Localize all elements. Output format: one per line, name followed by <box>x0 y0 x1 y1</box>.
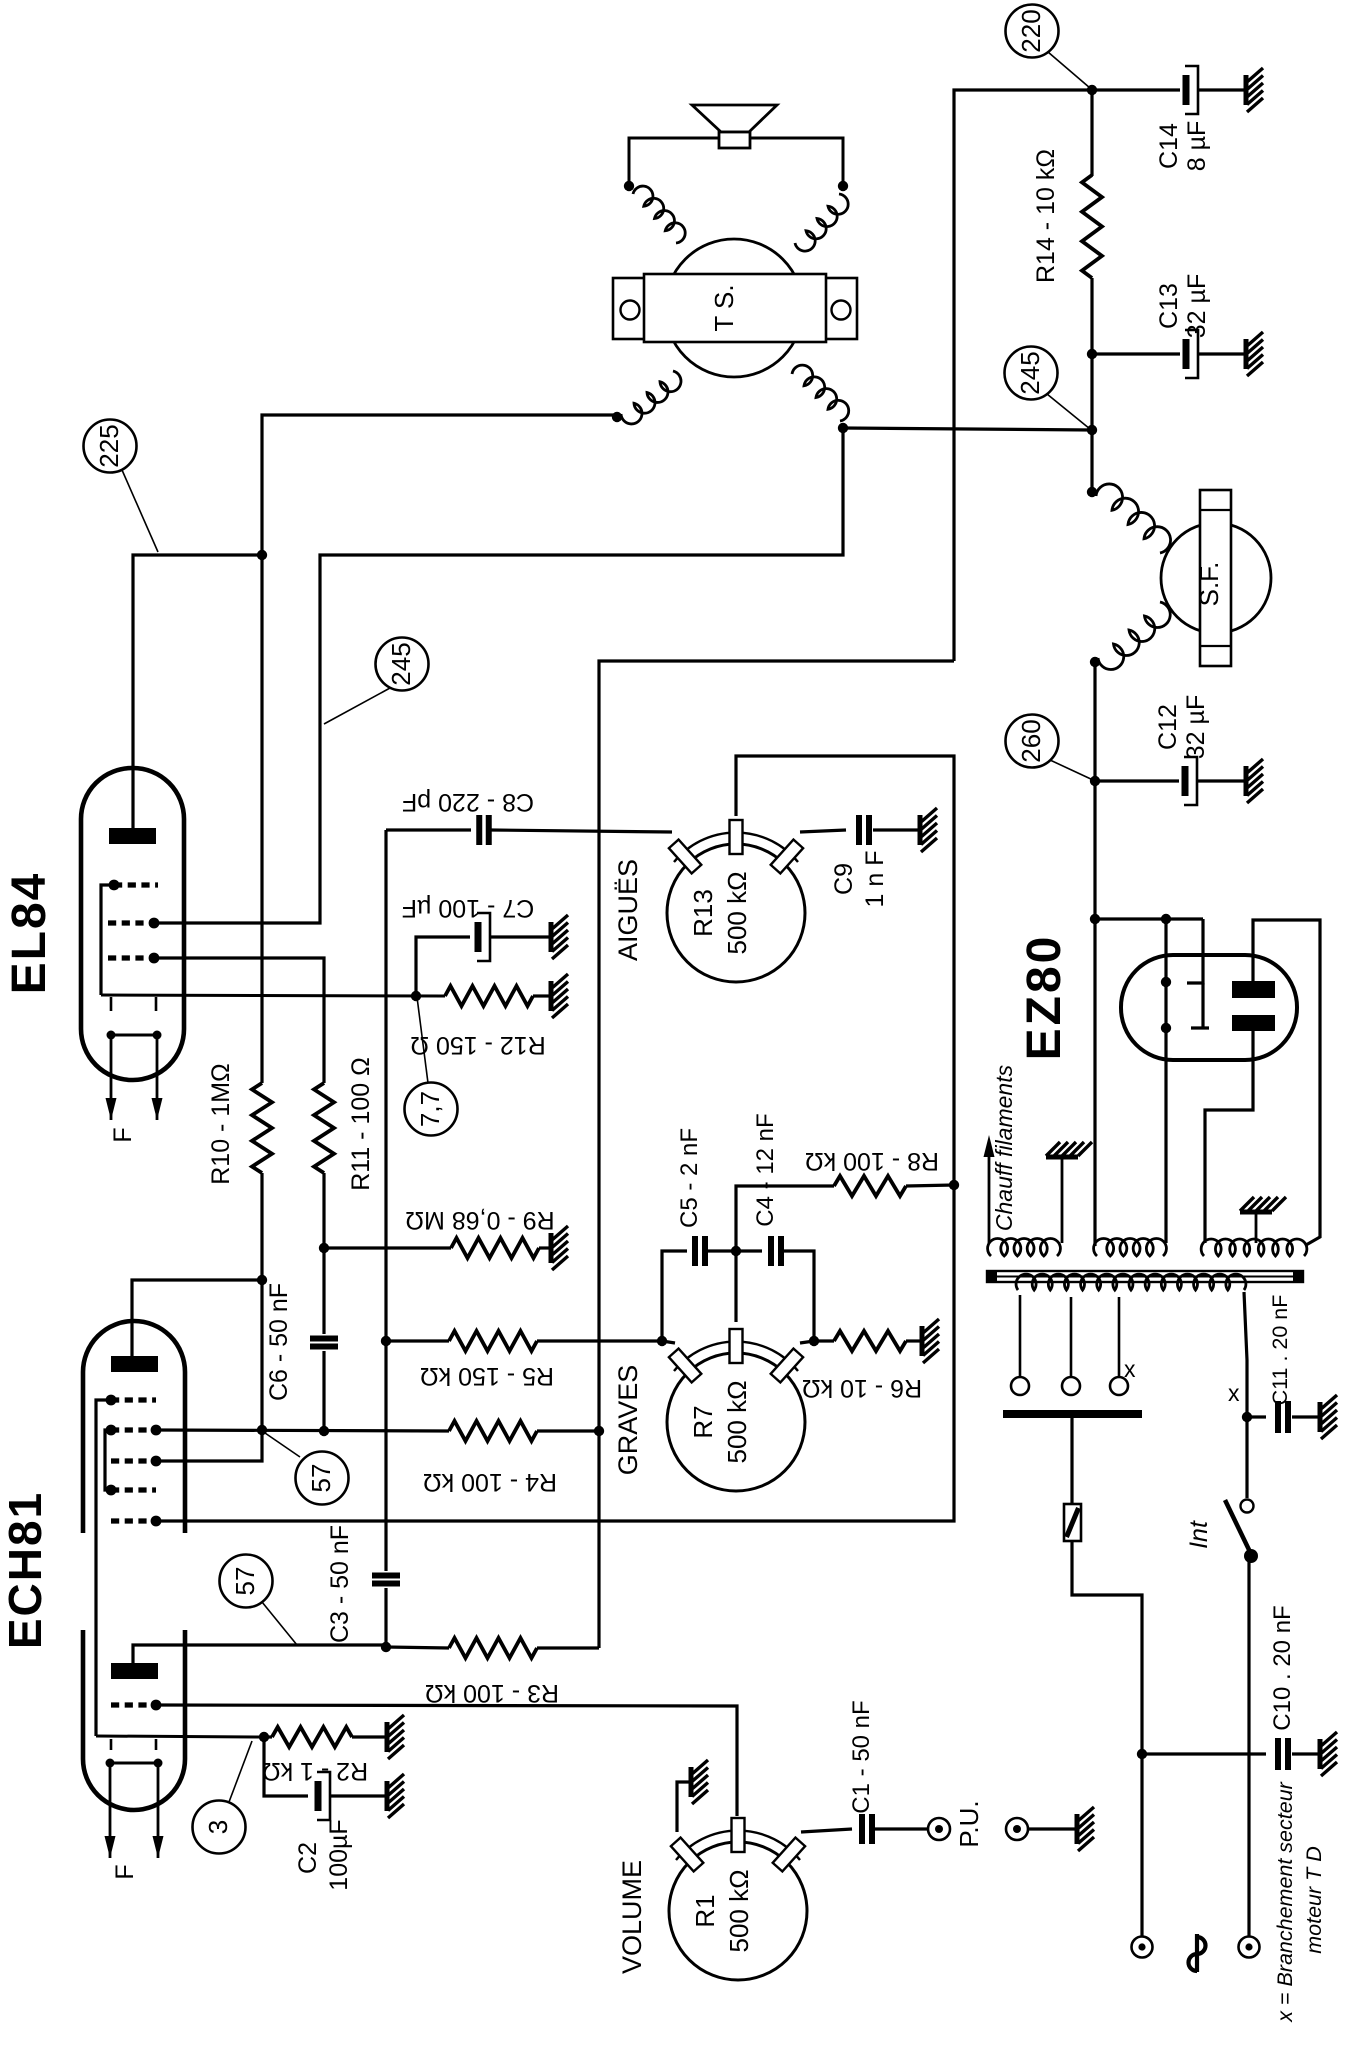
capacitor C9 1nF <box>856 815 862 845</box>
transformer core <box>987 1271 1303 1282</box>
wire 220 feed rail <box>599 661 954 1648</box>
capacitor C14 <box>1183 75 1190 105</box>
node speaker left <box>624 181 634 191</box>
svg-text:C8 - 220 pF: C8 - 220 pF <box>402 788 534 816</box>
svg-text:R12 - 150 Ω: R12 - 150 Ω <box>410 1031 545 1059</box>
tube EL84 grid2 <box>108 920 154 925</box>
transformer T.S. primary coil right <box>792 365 849 421</box>
wire R13 right to C9 <box>800 830 846 832</box>
wire EL84 g1 link <box>101 885 114 995</box>
tube ECH81 envelope lower <box>83 1630 185 1810</box>
wire C13 right <box>1199 352 1245 355</box>
node EZ80 top left <box>1090 914 1100 924</box>
svg-text:P.U.: P.U. <box>954 1800 984 1847</box>
transformer T.S. mounting bracket <box>613 278 646 339</box>
pointer 57 upper <box>265 1433 300 1457</box>
tube ECH81 grid row2 <box>111 1427 156 1432</box>
svg-text:EL84: EL84 <box>3 872 56 995</box>
primary tap 2 terminal <box>1062 1377 1080 1395</box>
svg-text:R9 - 0,68 MΩ: R9 - 0,68 MΩ <box>405 1206 554 1234</box>
node EZ80 cathode b <box>1161 1023 1171 1033</box>
wire EL84 g3 to R11 <box>154 958 324 1083</box>
wire R7 wiper <box>734 1251 737 1322</box>
wire ECH81 g2 row to R4 <box>156 1430 449 1431</box>
wire C14 left <box>1092 88 1180 91</box>
pointer 245 left <box>324 688 390 724</box>
tube ECH81 heater leads F <box>109 1763 112 1838</box>
wire R7 left lug <box>662 1341 675 1343</box>
node R9 junction <box>319 1243 329 1253</box>
node choke bottom <box>1090 657 1100 667</box>
wire C5 to C4 <box>707 1249 762 1252</box>
ground PU <box>1077 1807 1094 1851</box>
pointer 220 <box>1048 52 1090 88</box>
potentiometer R1 VOLUME <box>669 1842 807 1980</box>
wire R10 bottom <box>260 1173 263 1430</box>
tube ECH81 grid row5 <box>111 1518 156 1523</box>
node R7 left junction <box>657 1336 667 1346</box>
mains terminal right <box>1239 1937 1260 1958</box>
svg-text:C1 - 50 nF: C1 - 50 nF <box>848 1700 875 1813</box>
svg-text:260: 260 <box>1016 719 1046 762</box>
node C5 C4 junction <box>731 1246 741 1256</box>
svg-text:245: 245 <box>386 642 416 685</box>
wire C7 right <box>491 935 549 938</box>
svg-text:57: 57 <box>306 1464 336 1493</box>
secondary winding heater chauff <box>988 1238 1061 1256</box>
choke S.F. coil top <box>1096 484 1171 553</box>
pointer 260 <box>1050 760 1093 780</box>
transformer T.S. primary coil left <box>621 371 681 424</box>
tube ECH81 grid row1 <box>111 1397 156 1402</box>
tube EL84 grid1 <box>114 882 158 887</box>
switch Int lever <box>1225 1500 1252 1556</box>
svg-text:ECH81: ECH81 <box>0 1491 51 1649</box>
wire triode grid rail <box>156 1185 954 1521</box>
svg-text:C9: C9 <box>830 863 858 895</box>
wire TS primary left <box>262 415 617 555</box>
capacitor C11 <box>1275 1401 1281 1433</box>
capacitor C4 12nF <box>768 1236 774 1266</box>
node T.S. primary right <box>838 423 848 433</box>
EZ80 cathode line <box>1164 919 1167 1243</box>
wire ECH81 g2-g4 link <box>105 1430 111 1490</box>
wire PU ground <box>1028 1827 1075 1830</box>
ground C7 <box>551 915 568 959</box>
svg-text:R5 - 150 kΩ: R5 - 150 kΩ <box>420 1362 554 1390</box>
svg-text:R8 - 100 kΩ: R8 - 100 kΩ <box>805 1147 939 1175</box>
node 260 junction <box>1090 776 1100 786</box>
node T.S. primary left <box>612 412 622 422</box>
node R8 right junction <box>949 1180 959 1190</box>
wire C12 right <box>1198 779 1245 782</box>
svg-text:R14 - 10 kΩ: R14 - 10 kΩ <box>1032 149 1060 283</box>
transformer T.S. bracket hole right <box>832 301 851 320</box>
svg-text:C6 - 50 nF: C6 - 50 nF <box>265 1283 293 1401</box>
node circle 245 right <box>1005 347 1058 400</box>
capacitor C12 <box>1182 766 1189 796</box>
resistor R14 10k <box>1090 90 1093 176</box>
wire speaker top <box>629 138 719 190</box>
node circle 57 upper <box>296 1452 349 1505</box>
voltage selector bar <box>1003 1410 1142 1418</box>
svg-text:T S.: T S. <box>709 284 739 331</box>
svg-text:225: 225 <box>94 424 124 467</box>
wire C8 chain vertical <box>384 830 387 1341</box>
wire C10 to mains terminal <box>1140 1754 1143 1936</box>
ground C10 <box>1320 1732 1337 1776</box>
resistor R9 0.68M <box>451 1238 539 1258</box>
svg-text:R10 - 1MΩ: R10 - 1MΩ <box>207 1063 235 1185</box>
capacitor C13 <box>1183 339 1190 369</box>
choke S.F. coil bottom <box>1098 602 1170 670</box>
wire C12 left <box>1095 779 1179 782</box>
svg-text:C4 - 12 nF: C4 - 12 nF <box>752 1113 779 1226</box>
tube ECH81 grid row4 <box>111 1487 156 1492</box>
tube EL84 envelope <box>81 768 184 1080</box>
wire 220 rail top <box>954 90 1092 661</box>
svg-text:x = Branchement secteur: x = Branchement secteur <box>1273 1781 1297 2022</box>
wire 260 down to EZ80 net <box>1093 781 1096 919</box>
svg-text:C5 - 2 nF: C5 - 2 nF <box>676 1128 703 1228</box>
wire C6 bottom <box>322 1351 325 1431</box>
svg-text:C7 - 100 µF: C7 - 100 µF <box>402 894 535 922</box>
pointer 245 right <box>1047 394 1090 429</box>
wire R9 left <box>324 1246 451 1249</box>
svg-text:R6 - 10 kΩ: R6 - 10 kΩ <box>802 1374 922 1402</box>
ground R12 <box>551 974 568 1018</box>
capacitor C7 100uF <box>475 922 482 952</box>
svg-text:AIGUËS: AIGUËS <box>613 859 643 961</box>
svg-text:Chauff filaments: Chauff filaments <box>991 1064 1017 1231</box>
resistor R4 100k <box>449 1421 537 1441</box>
svg-text:R7: R7 <box>688 1405 718 1438</box>
primary tap 1 wire <box>1019 1295 1022 1377</box>
wire C11 right <box>1292 1415 1318 1418</box>
node R3 left junction <box>381 1642 391 1652</box>
pointer 7,7 <box>417 997 428 1083</box>
svg-text:x: x <box>1124 1356 1136 1382</box>
wire triode grid to volume <box>156 1705 737 1816</box>
svg-text:100µF: 100µF <box>325 1819 353 1890</box>
wire C8 left <box>386 828 471 831</box>
EZ80 filament <box>1187 919 1203 983</box>
capacitor C5 2nF <box>692 1236 698 1266</box>
svg-text:C11 . 20 nF: C11 . 20 nF <box>1268 1295 1292 1406</box>
ground R2 <box>387 1715 404 1759</box>
wire C3 chain vertical <box>384 1341 387 1571</box>
svg-text:C13: C13 <box>1155 283 1183 329</box>
tube ECH81 cathode stubs <box>110 1739 113 1750</box>
wire anode junction down <box>260 555 263 1083</box>
wire R2 to C2 <box>264 1737 308 1796</box>
secondary winding HT <box>1201 1239 1307 1256</box>
svg-text:F: F <box>109 1127 137 1142</box>
node circle 3 <box>193 1801 246 1854</box>
wire EZ80 anode2 to HT left <box>1205 1031 1253 1243</box>
wire R8 left <box>736 1186 834 1251</box>
ground R1 <box>691 1760 708 1804</box>
wire choke to 260 <box>1093 662 1096 781</box>
pointer 225 <box>122 470 158 552</box>
svg-text:1 n F: 1 n F <box>861 851 889 908</box>
secondary winding EZ80 heater <box>1094 1238 1167 1256</box>
wire fuse down <box>1072 1541 1142 1754</box>
svg-text:C3 - 50 nF: C3 - 50 nF <box>326 1525 354 1643</box>
mains terminal left <box>1132 1937 1153 1958</box>
pointer 57 lower <box>262 1602 297 1645</box>
ground C11 <box>1320 1395 1337 1439</box>
wire C9 right <box>873 828 918 831</box>
node cathode junction <box>411 991 421 1001</box>
svg-text:32 µF: 32 µF <box>1183 274 1211 338</box>
terminal PU ground <box>1006 1818 1028 1840</box>
transformer T.S. bracket hole left <box>621 301 640 320</box>
wire R1 left lug to ground <box>677 1782 689 1832</box>
ground chauff winding <box>1061 1158 1064 1243</box>
tube EZ80 envelope <box>1121 955 1297 1060</box>
capacitor C6 50nF <box>310 1336 338 1342</box>
node speaker right <box>838 181 848 191</box>
tube EL84 heater <box>111 1034 157 1037</box>
svg-text:220: 220 <box>1016 9 1046 52</box>
node R4 left junction <box>257 1425 267 1435</box>
svg-text:500 kΩ: 500 kΩ <box>722 871 752 954</box>
wire C10 right <box>1292 1752 1318 1755</box>
ground C12 <box>1246 759 1263 803</box>
svg-text:R3 - 100 kΩ: R3 - 100 kΩ <box>425 1679 559 1707</box>
resistor R3 100k <box>386 1647 449 1648</box>
capacitor C1 50nF <box>859 1814 865 1844</box>
svg-text:GRAVES: GRAVES <box>613 1365 643 1476</box>
ground C14 <box>1246 68 1263 112</box>
wire C7 link <box>416 937 470 996</box>
node EZ80 cathode top <box>1161 914 1171 924</box>
tube ECH81 heater <box>110 1762 158 1765</box>
wire 245 down to choke <box>1090 430 1093 492</box>
primary tap 2 wire <box>1070 1297 1073 1377</box>
wire 260 net down to winding <box>1093 919 1096 1246</box>
svg-text:57: 57 <box>230 1567 260 1596</box>
ground C9 <box>920 808 937 852</box>
tube ECH81 triode grid <box>111 1702 156 1707</box>
wire C11 to switch <box>1245 1417 1248 1498</box>
node 245 junction <box>1087 425 1097 435</box>
node circle 57 lower <box>220 1555 273 1608</box>
capacitor C8 220pF <box>476 815 482 845</box>
transformer T.S. secondary coil right <box>795 194 848 251</box>
ground R6 <box>922 1319 939 1363</box>
svg-text:8 µF: 8 µF <box>1183 121 1211 172</box>
wire to ECH81 anode <box>132 1280 262 1356</box>
node C13 junction <box>1087 349 1097 359</box>
wire EZ80 anode1 to HT right <box>1253 920 1320 1245</box>
node R5 left junction <box>381 1336 391 1346</box>
EZ80 anode plate 2 <box>1232 1015 1275 1031</box>
pointer 3 <box>229 1741 252 1802</box>
svg-text:32 µF: 32 µF <box>1182 695 1210 759</box>
svg-text:S.F.: S.F. <box>1194 562 1224 607</box>
tube EL84 anode <box>109 828 156 844</box>
EZ80 anode plate 1 <box>1232 981 1275 998</box>
speaker HP <box>692 105 777 132</box>
node EL84 anode junction <box>257 550 267 560</box>
node circle 7,7 <box>405 1083 458 1136</box>
tube EL84 grid3 <box>108 955 154 960</box>
capacitor C3 50nF <box>372 1573 400 1579</box>
choke S.F. circle <box>1161 523 1271 633</box>
wire C2 right <box>331 1794 385 1797</box>
node cathode R2 junction <box>259 1732 269 1742</box>
node circle 220 <box>1006 5 1059 58</box>
wire C1 to PU <box>874 1827 928 1830</box>
potentiometer R7 GRAVES <box>667 1353 805 1491</box>
svg-text:R11 - 100 Ω: R11 - 100 Ω <box>347 1057 375 1191</box>
primary winding <box>1016 1274 1246 1290</box>
svg-text:F: F <box>111 1864 139 1879</box>
svg-text:245: 245 <box>1015 351 1045 394</box>
svg-text:500 kΩ: 500 kΩ <box>722 1380 752 1463</box>
transformer T.S. secondary coil left <box>633 186 685 243</box>
wire ECH81 g3 link <box>156 1431 262 1461</box>
tube EL84 cathode <box>101 995 445 996</box>
switch Int contact <box>1241 1500 1254 1513</box>
label mains sine <box>1195 1934 1199 1972</box>
wire EZ80 top <box>1095 917 1203 920</box>
tube EL84 heater leads F <box>110 1035 113 1100</box>
wire C13 left <box>1092 352 1180 355</box>
wire R14 to 245 node <box>1090 354 1093 431</box>
svg-text:EZ80: EZ80 <box>1018 934 1071 1061</box>
node R4 right junction <box>594 1426 604 1436</box>
transformer T.S. core circle <box>665 239 803 377</box>
fuse <box>1064 1504 1081 1541</box>
node C10 junction <box>1137 1749 1147 1759</box>
svg-text:C10 . 20 nF: C10 . 20 nF <box>1269 1605 1296 1730</box>
svg-text:R1: R1 <box>690 1894 720 1927</box>
resistor R2 1k <box>264 1735 272 1738</box>
wire C14 right <box>1199 88 1245 91</box>
primary tap 3 terminal <box>1110 1377 1128 1395</box>
wire R1 right lug to C1 <box>801 1829 852 1832</box>
wire ECH81 cathode row <box>96 1736 264 1737</box>
wire R7 right lug <box>800 1341 814 1343</box>
terminal PU hot <box>928 1818 950 1840</box>
svg-text:moteur T D: moteur T D <box>1302 1846 1326 1954</box>
node circle 260 <box>1006 715 1059 768</box>
svg-text:C12: C12 <box>1154 704 1182 750</box>
node choke top <box>1087 487 1097 497</box>
wire EL84 anode riser <box>133 555 262 828</box>
wire ECH81 anode2 link <box>133 1645 386 1663</box>
tube ECH81 anode2 <box>111 1663 158 1679</box>
svg-text:x: x <box>1228 1380 1240 1406</box>
wire C3 bottom <box>384 1588 387 1647</box>
svg-text:R13: R13 <box>688 889 718 937</box>
resistor R11 100 <box>314 1083 334 1173</box>
ground C2 <box>387 1774 404 1818</box>
node C11 junction <box>1242 1412 1252 1422</box>
wire selector to fuse <box>1070 1418 1073 1504</box>
node circle 245 left <box>376 638 429 691</box>
wire primary right down <box>1244 1292 1247 1417</box>
svg-text:3: 3 <box>203 1820 233 1834</box>
node C6 R4 junction <box>319 1426 329 1436</box>
svg-text:C2: C2 <box>294 1842 322 1874</box>
wire ECH81 g1 long link <box>96 1400 111 1736</box>
primary tap 1 terminal <box>1011 1377 1029 1395</box>
resistor R12 150 <box>445 986 533 1006</box>
resistor R5 150k <box>386 1339 449 1342</box>
choke S.F. bar <box>1200 490 1231 666</box>
svg-text:R4 - 100 kΩ: R4 - 100 kΩ <box>423 1468 557 1496</box>
node 220 junction <box>1087 85 1097 95</box>
ground C13 <box>1246 332 1263 376</box>
svg-text:Int: Int <box>1185 1520 1213 1549</box>
primary tap 3 wire <box>1118 1297 1121 1377</box>
switch Int pivot <box>1244 1549 1258 1563</box>
node R10 ECH81 junction <box>257 1275 267 1285</box>
wire R11 bottom <box>322 1173 325 1334</box>
resistor R8 100k <box>834 1176 906 1196</box>
svg-text:7,7: 7,7 <box>415 1091 445 1127</box>
wire EL84 screen rail <box>154 428 843 923</box>
wire C11 left <box>1247 1415 1266 1418</box>
svg-text:500 kΩ: 500 kΩ <box>724 1869 754 1952</box>
node R6 junction <box>809 1336 819 1346</box>
capacitor C10 <box>1275 1738 1281 1770</box>
capacitor C2 100uF <box>315 1781 322 1811</box>
tube ECH81 grid row3 <box>111 1458 156 1463</box>
wire R13 wiper rail <box>736 756 954 1185</box>
resistor R6 10k <box>814 1339 834 1342</box>
svg-text:C14: C14 <box>1155 123 1183 169</box>
svg-text:R2 - 1 kΩ: R2 - 1 kΩ <box>262 1757 368 1785</box>
wire C5 link <box>662 1251 687 1341</box>
tube EL84 cathode stubs <box>110 997 113 1011</box>
wire C10 left <box>1142 1752 1266 1755</box>
resistor R10 1M <box>252 1083 272 1173</box>
ground R9 <box>551 1226 568 1270</box>
node EZ80 cathode a <box>1161 977 1171 987</box>
ground HT center tap <box>1255 1213 1258 1243</box>
arrow chauff filaments <box>988 1155 991 1243</box>
node circle 225 <box>84 420 137 473</box>
tube ECH81 envelope upper <box>83 1321 185 1533</box>
potentiometer R13 AIGUES <box>667 844 805 982</box>
wire C4 right <box>783 1251 814 1341</box>
tube ECH81 anode1 <box>111 1356 158 1372</box>
wire switch to mains terminal <box>1247 1556 1250 1936</box>
wire C8 right <box>491 830 672 832</box>
wire TS to 245 node <box>843 428 1092 430</box>
svg-text:VOLUME: VOLUME <box>617 1860 647 1974</box>
